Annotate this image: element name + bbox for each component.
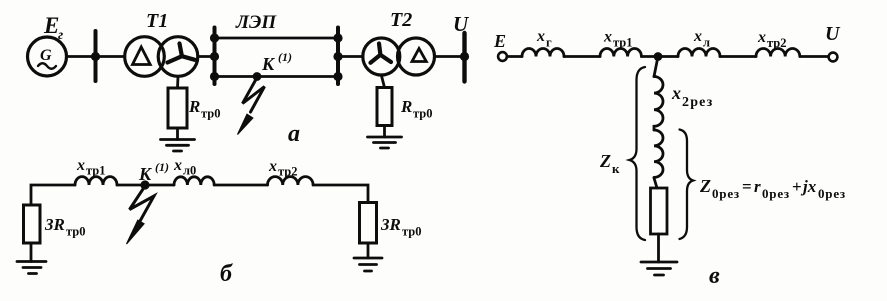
svg-text:а: а [288, 121, 300, 147]
resistor Rтр0 (T2 neutral) [377, 88, 392, 126]
wire line circuit 2 (faulted) [215, 75, 339, 78]
svg-text:+: + [792, 177, 802, 196]
svg-text:x: x [268, 158, 277, 175]
svg-text:ЛЭП: ЛЭП [235, 12, 277, 33]
svg-text:тр0: тр0 [66, 225, 86, 239]
wire xтр2 to right corner [313, 185, 368, 203]
wire xл0 to xтр2 [214, 184, 267, 187]
transformer T1 [125, 37, 198, 77]
svg-text:U: U [453, 12, 470, 36]
junction dot on bus D [460, 52, 469, 61]
brace Z0рез [680, 130, 694, 240]
label xтр1 (part в) [603, 29, 633, 50]
inductor xл0 [174, 177, 214, 185]
resistor Rтр0 (T1 neutral) [168, 88, 187, 128]
label xл [693, 28, 710, 50]
inductor xл [678, 49, 720, 57]
generator G (Eг) [28, 37, 67, 76]
bus D [462, 33, 466, 82]
inductor xг [522, 49, 564, 57]
svg-text:x: x [757, 29, 766, 46]
svg-text:тр1: тр1 [86, 164, 106, 178]
terminal U [829, 53, 838, 62]
wire bus A to T1 [96, 55, 125, 58]
ground (part б right) [354, 258, 382, 271]
inductor xтр1 (part б) [75, 177, 117, 185]
label K(1) [261, 50, 292, 74]
fault lightning arrow (part a) [238, 78, 265, 135]
label 3Rтр0 (right) [380, 215, 422, 239]
wire line circuit 1 (ЛЭП top) [215, 37, 339, 40]
wire resistor to ground (part в) [657, 234, 660, 262]
svg-text:x: x [603, 29, 612, 46]
wire xг to xтр1 [564, 55, 600, 58]
svg-text:R: R [188, 97, 200, 116]
svg-text:x: x [76, 157, 85, 174]
inductor x2рез [654, 77, 663, 131]
inductor xтр2 (part б) [268, 177, 314, 185]
label xтр1 (part б) [76, 157, 106, 178]
inductor xтр2 (part в) [756, 49, 800, 57]
svg-text:Т1: Т1 [146, 10, 168, 32]
wire xтр1 to xл0 [117, 184, 174, 187]
svg-text:r: r [754, 177, 761, 196]
wire bus C to T2 [338, 55, 363, 58]
svg-text:0рез: 0рез [712, 186, 740, 201]
svg-text:г: г [58, 28, 63, 43]
bus A [94, 31, 98, 81]
svg-text:E: E [493, 31, 506, 51]
svg-text:К: К [138, 164, 153, 184]
ground (part б left) [17, 262, 46, 274]
wire resistor to ground (T1) [176, 128, 179, 140]
svg-text:jx: jx [800, 177, 817, 196]
svg-text:x: x [173, 157, 182, 174]
svg-text:г: г [546, 36, 552, 50]
brace Zк [630, 67, 646, 240]
svg-text:в: в [709, 263, 720, 289]
svg-text:U: U [825, 23, 841, 45]
bus B [213, 28, 217, 85]
label Eг [43, 13, 63, 43]
transformer T2 [363, 38, 435, 75]
wire part б left corner [31, 185, 75, 205]
wire xтр1 to node [641, 55, 658, 58]
label 3Rтр0 (left) [44, 215, 86, 239]
svg-text:тр0: тр0 [201, 107, 221, 121]
svg-text:0рез: 0рез [818, 186, 846, 201]
wire generator to bus A [67, 55, 96, 58]
svg-text:тр1: тр1 [613, 36, 633, 50]
wire xл to xтр2 [720, 55, 756, 58]
svg-text:E: E [43, 13, 59, 38]
svg-text:x: x [693, 28, 702, 45]
wire T1 neutral [176, 76, 179, 88]
node K(1) fault point (part б) [140, 180, 149, 189]
svg-text:Т2: Т2 [390, 9, 412, 31]
svg-text:К: К [261, 54, 276, 74]
junction dots on bus B [210, 33, 219, 81]
svg-text:3R: 3R [44, 215, 65, 234]
junction dots on bus C [333, 33, 342, 81]
wire node to xл [658, 55, 678, 58]
ground (T2 neutral) [368, 137, 402, 148]
wire T2 neutral [381, 75, 384, 88]
ground (T1 neutral) [161, 140, 195, 152]
label Rтр0 (T2) [400, 97, 433, 121]
wire resistor to ground (T2) [383, 126, 386, 138]
svg-text:к: к [612, 161, 620, 176]
label x2рез [671, 83, 713, 110]
wire T1 to bus B [198, 55, 215, 58]
label xг [536, 28, 552, 50]
svg-text:тр2: тр2 [278, 165, 298, 179]
label Rтр0 (T1) [188, 97, 221, 121]
wire T2 to bus D [435, 55, 465, 58]
node K(1) fault point [253, 72, 262, 81]
wire right resistor to ground [367, 243, 370, 258]
label formula Z0рез = r0рез + jx0рез [699, 176, 846, 201]
label Zк [599, 151, 620, 176]
svg-text:л: л [703, 36, 710, 50]
svg-text:л0: л0 [183, 164, 196, 178]
svg-text:б: б [220, 261, 233, 287]
svg-text:3R: 3R [380, 215, 401, 234]
resistor r0рез [651, 188, 668, 234]
svg-text:тр0: тр0 [402, 225, 422, 239]
node junction (part в) [654, 52, 663, 61]
label K(1) (part б) [138, 160, 169, 184]
fault lightning arrow (part б) [127, 186, 155, 244]
wire E to xг [507, 55, 522, 58]
label xтр2 (part б) [268, 158, 298, 179]
ground (part в) [641, 262, 677, 275]
wire x0рез to resistor [654, 178, 657, 188]
svg-text:тр2: тр2 [767, 36, 787, 50]
svg-text:=: = [742, 177, 752, 196]
bus C [336, 28, 340, 85]
svg-text:x: x [671, 83, 681, 103]
inductor x0рез [654, 130, 663, 177]
svg-text:0рез: 0рез [762, 186, 790, 201]
label xтр2 (part в) [757, 29, 787, 50]
svg-text:x: x [536, 28, 545, 45]
terminal E [498, 52, 507, 61]
svg-text:2рез: 2рез [682, 95, 713, 110]
svg-text:тр0: тр0 [413, 107, 433, 121]
resistor 3Rтр0 (left) [24, 205, 41, 243]
inductor xтр1 (part в) [600, 49, 641, 57]
svg-text:Z: Z [599, 151, 611, 171]
resistor 3Rтр0 (right) [360, 203, 377, 244]
svg-text:(1): (1) [155, 160, 169, 174]
junction dot on bus A [91, 52, 100, 61]
svg-text:R: R [400, 97, 412, 116]
label xл0 [173, 157, 196, 178]
wire left resistor to ground [30, 243, 33, 262]
svg-text:(1): (1) [278, 50, 292, 64]
svg-text:G: G [40, 47, 52, 64]
wire node down to x2рез [654, 57, 658, 77]
svg-text:Z: Z [699, 176, 711, 196]
wire xтр2 to terminal U [800, 55, 829, 58]
